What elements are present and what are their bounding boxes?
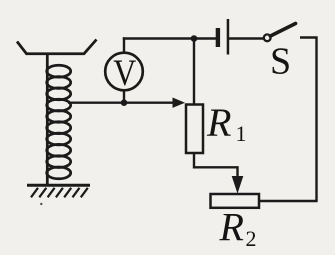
svg-text:R: R <box>219 205 244 250</box>
coil L loop 1 <box>47 65 71 77</box>
coil L loop 2 <box>47 77 71 89</box>
coil L loop 10 <box>47 167 71 179</box>
svg-text:2: 2 <box>246 226 257 251</box>
svg-text:V: V <box>113 53 136 94</box>
wire voltmeter bottom <box>123 89 125 103</box>
node junction top <box>191 35 198 42</box>
coil stem <box>46 54 49 185</box>
battery positive plate <box>227 19 230 55</box>
resistor R1 <box>186 105 203 154</box>
wire voltmeter top <box>123 37 125 54</box>
svg-text:S: S <box>270 41 291 83</box>
coil L loop 3 <box>47 88 71 100</box>
ground <box>27 185 90 197</box>
antenna support (funnel) <box>17 40 97 54</box>
top wire to battery <box>123 37 217 39</box>
slider arrow into R1 <box>173 98 186 108</box>
battery negative plate <box>216 28 220 47</box>
wire right side <box>300 38 317 202</box>
svg-text:1: 1 <box>236 121 247 146</box>
svg-text:R: R <box>206 100 231 145</box>
slider arrow onto R2 <box>232 176 244 194</box>
wire coil to R1 slider <box>68 101 175 103</box>
switch pivot <box>264 34 271 41</box>
coil L loop 8 <box>47 144 71 156</box>
coil L loop 5 <box>47 111 71 123</box>
switch blade <box>270 24 295 37</box>
wire R1 bottom <box>194 153 238 178</box>
speck artifact <box>40 203 42 205</box>
resistor R2 <box>211 194 260 208</box>
voltmeter U1 <box>105 53 143 91</box>
wire junction down to R1 <box>193 39 195 106</box>
coil L loop 6 <box>47 122 71 134</box>
node junction below voltmeter <box>121 99 128 106</box>
coil L loop 9 <box>47 156 71 168</box>
wire R2 right <box>258 200 318 202</box>
wire battery to switch <box>229 37 264 39</box>
coil L loop 7 <box>47 133 71 145</box>
coil L loop 4 <box>47 99 71 111</box>
